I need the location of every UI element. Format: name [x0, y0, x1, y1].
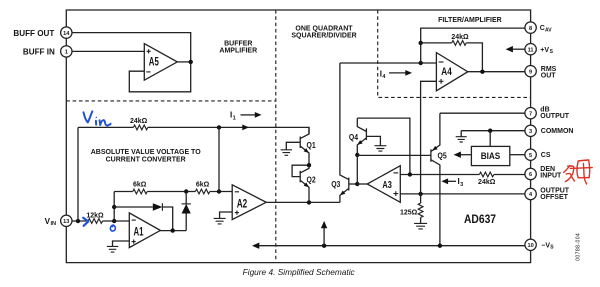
svg-text:IN: IN	[51, 221, 57, 227]
resistor 24k DEN	[478, 172, 496, 186]
svg-text:12kΩ: 12kΩ	[86, 213, 104, 220]
current label I1	[230, 111, 262, 122]
svg-text:14: 14	[63, 31, 70, 37]
svg-text:A1: A1	[134, 227, 144, 239]
node: 6k / 24k riser junction	[217, 189, 221, 193]
svg-text:AV: AV	[545, 28, 552, 34]
handwritten blue arrow at 12k	[83, 218, 88, 226]
node: 24k output / A2 branch	[217, 125, 221, 129]
wire: Q2 base loop to node	[292, 165, 309, 176]
node: A1 output / D1 junction	[171, 228, 175, 232]
pin 5 CS	[525, 149, 551, 160]
op-amp A3 (points left)	[367, 166, 400, 203]
svg-text:SQUARER/DIVIDER: SQUARER/DIVIDER	[291, 33, 356, 40]
pin 8 CAV	[525, 22, 552, 34]
transistor Q3	[331, 63, 349, 202]
svg-text:S: S	[550, 49, 554, 55]
pin 7 dB OUTPUT	[525, 107, 570, 120]
svg-text:Q1: Q1	[307, 140, 317, 150]
ground below 125 ohm	[414, 218, 427, 229]
svg-text:Q2: Q2	[307, 174, 317, 184]
svg-text:A2: A2	[237, 198, 248, 210]
wire: Q5 emitter to dB OUTPUT pin	[440, 112, 525, 114]
handwritten red annotation (denominator)	[564, 160, 593, 184]
wire: A2 output to squarer emitters	[266, 201, 340, 203]
svg-text:A3: A3	[382, 179, 392, 191]
wire: riser from 24k node down to A2 input	[218, 127, 220, 191]
ground at A2 + input	[214, 212, 233, 224]
wire: base line to Q5	[357, 154, 431, 156]
svg-text:CURRENT CONVERTER: CURRENT CONVERTER	[106, 156, 186, 163]
wire: A4 feedback riser and CAV line	[421, 28, 525, 63]
pin 1 BUFF IN	[23, 46, 72, 57]
svg-text:Figure 4. Simplified Schematic: Figure 4. Simplified Schematic	[243, 267, 356, 277]
node: A3 output / Q3 base	[355, 182, 359, 186]
resistor 24k feedback	[421, 34, 483, 72]
arrow: BIAS to Q5	[454, 152, 472, 158]
BIAS box	[471, 146, 509, 165]
transistor Q2	[300, 165, 316, 202]
wire: A5 output	[177, 61, 190, 63]
svg-text:COMMON: COMMON	[541, 128, 574, 135]
svg-text:6kΩ: 6kΩ	[196, 181, 210, 188]
resistor 24k input	[130, 118, 148, 130]
wire: COMMON line	[461, 130, 525, 132]
svg-text:OUTPUT: OUTPUT	[540, 113, 570, 120]
label ABSOLUTE VALUE VOLTAGE TO CURRENT CONVERTER	[91, 149, 201, 163]
svg-text:7: 7	[529, 111, 532, 117]
wire: negative supply rail	[252, 243, 525, 249]
label FILTER/AMPLIFIER	[438, 17, 502, 24]
svg-text:5: 5	[529, 153, 532, 159]
node: BIAS top junction	[488, 129, 492, 133]
dashed partition: filter/amplifier box	[378, 10, 531, 97]
op-amp A1	[129, 213, 160, 248]
wire: A3 + line to OUTPUT OFFSET	[400, 193, 525, 195]
node: A5 output junction	[189, 60, 193, 64]
node: A4 output junction	[480, 70, 484, 74]
wire: pin 1 to A5 + input	[72, 50, 144, 52]
node: Q2 emitter junction	[307, 200, 311, 204]
svg-text:6: 6	[529, 172, 532, 178]
svg-text:AD637: AD637	[464, 212, 496, 226]
dashed partition: buffer section vertical	[275, 10, 277, 263]
resistor 12k	[86, 213, 104, 224]
arrowhead on I1 wire	[242, 125, 249, 131]
wire: A4 + input down to A3 + line	[421, 81, 437, 194]
op-amp A2	[232, 185, 266, 220]
svg-text:00788-004: 00788-004	[576, 233, 582, 261]
wire: A4 output to RMS OUT	[468, 71, 525, 73]
chip outline border	[66, 10, 530, 263]
svg-text:ONE QUADRANT: ONE QUADRANT	[295, 26, 353, 33]
current label I4	[380, 69, 412, 80]
part number sidebar 00788-004	[576, 233, 582, 261]
svg-text:A4: A4	[441, 66, 452, 78]
node: VIN / 24k branch	[76, 219, 80, 223]
pin 14 BUFF OUT	[13, 27, 72, 38]
svg-text:11: 11	[528, 47, 534, 53]
node: A1 inverting input junction	[112, 219, 116, 223]
wire: BIAS to COMMON	[489, 131, 491, 147]
svg-text:6kΩ: 6kΩ	[133, 181, 147, 188]
wire: A1 output	[160, 230, 186, 232]
wire: A1 feedback riser	[113, 192, 115, 222]
wire: Q3 base to A3 output node	[349, 183, 358, 185]
pin 13 VIN	[45, 215, 72, 227]
svg-text:3: 3	[460, 182, 463, 188]
pin 11 +VS with arrow	[506, 44, 554, 56]
pin 10 -VS	[525, 239, 554, 251]
ground at Q1 base	[281, 142, 301, 155]
ground on COMMON line	[456, 131, 467, 142]
label ONE QUADRANT SQUARER/DIVIDER	[291, 26, 356, 40]
resistor 125 ohm	[400, 194, 423, 218]
op-amp A4	[436, 53, 467, 91]
svg-text:S: S	[550, 245, 554, 251]
svg-text:10: 10	[527, 243, 533, 249]
diode D1 horizontal	[114, 203, 173, 230]
dashed partition: buffer section horizontal	[66, 100, 275, 102]
transistor Q1	[300, 127, 316, 165]
ground at Q4 base	[366, 136, 386, 151]
transistor Q4	[349, 118, 367, 155]
wire: A3 output to node	[357, 183, 367, 185]
arrow: up annotation	[321, 221, 327, 246]
svg-text:OUT: OUT	[541, 73, 557, 80]
wire: A3 output net vertical	[356, 155, 358, 184]
svg-text:FILTER/AMPLIFIER: FILTER/AMPLIFIER	[438, 17, 502, 24]
transistor Q5 (PNP)	[431, 113, 447, 246]
ground at A1 + input	[107, 241, 129, 252]
svg-text:A5: A5	[149, 56, 159, 68]
wire: pin 14 to A5 output	[72, 33, 191, 62]
label BUFFER AMPLIFIER	[219, 41, 257, 55]
svg-text:Q5: Q5	[438, 150, 448, 160]
node: diode branch on riser	[112, 205, 116, 209]
svg-text:8: 8	[529, 26, 532, 32]
wire: BIAS to CS pin	[510, 154, 525, 156]
node: 6k-6k junction	[184, 189, 188, 193]
svg-text:13: 13	[63, 219, 69, 225]
wire: A5 feedback loop	[129, 62, 190, 92]
op-amp A5	[144, 44, 177, 81]
svg-text:BUFF IN: BUFF IN	[23, 48, 55, 57]
pin 4 OUTPUT OFFSET	[525, 188, 570, 201]
svg-text:BIAS: BIAS	[481, 151, 501, 161]
svg-text:Q4: Q4	[349, 132, 359, 142]
svg-text:CS: CS	[541, 152, 551, 159]
svg-text:1: 1	[65, 50, 68, 56]
svg-text:9: 9	[529, 69, 532, 75]
node: loop junction on A3 inverting line	[408, 172, 412, 176]
svg-text:24kΩ: 24kΩ	[130, 118, 148, 125]
wire: VIN input line with 12k resistor	[72, 220, 129, 222]
pin 6 DEN INPUT	[525, 166, 562, 180]
resistor 6k second	[195, 181, 209, 194]
svg-text:OFFSET: OFFSET	[540, 194, 568, 201]
node: Q1 emitter / Q2 collector	[307, 163, 311, 167]
pin 3 COMMON	[525, 125, 574, 136]
wire: Q4 collector loop to A3 inverting input	[357, 118, 410, 174]
label AD637	[464, 212, 496, 226]
svg-text:4: 4	[382, 74, 386, 80]
svg-text:1: 1	[233, 115, 236, 121]
handwritten blue Vin annotation	[84, 111, 111, 125]
node: Q5 collector on rail	[438, 244, 442, 248]
handwritten blue circle at A1 input	[110, 225, 115, 231]
svg-text:3: 3	[529, 129, 532, 135]
node: A3 output net upper	[355, 153, 359, 157]
wire: A3 inverting input line to DEN 24k	[400, 174, 525, 176]
node: up arrow junction	[322, 244, 326, 248]
svg-text:AMPLIFIER: AMPLIFIER	[219, 47, 257, 54]
svg-text:BUFF OUT: BUFF OUT	[13, 29, 54, 38]
node: A4 inverting junction	[419, 61, 423, 65]
svg-text:−V: −V	[541, 242, 550, 249]
svg-text:Q3: Q3	[331, 179, 341, 189]
resistor 6k first	[133, 181, 147, 194]
pin 9 RMS OUT	[525, 66, 557, 80]
current label I3	[441, 177, 463, 188]
svg-text:+V: +V	[540, 47, 549, 54]
svg-text:INPUT: INPUT	[540, 173, 562, 180]
svg-text:24kΩ: 24kΩ	[478, 179, 496, 186]
node: feedback top junction	[419, 41, 423, 45]
diode D2 vertical	[182, 192, 191, 231]
svg-text:ABSOLUTE VALUE VOLTAGE TO: ABSOLUTE VALUE VOLTAGE TO	[91, 149, 201, 156]
wire: VIN branch up to 24k input resistor	[77, 127, 79, 221]
node: 125 ohm junction	[418, 192, 422, 196]
wire: 24k input line to squarer	[78, 127, 309, 134]
wire: Q3 collector to A4 inverting input	[340, 62, 437, 64]
svg-text:125Ω: 125Ω	[400, 209, 418, 216]
caption Figure 4. Simplified Schematic	[243, 267, 356, 277]
wire: 6k feedback line	[114, 191, 232, 193]
svg-text:24kΩ: 24kΩ	[451, 34, 469, 41]
